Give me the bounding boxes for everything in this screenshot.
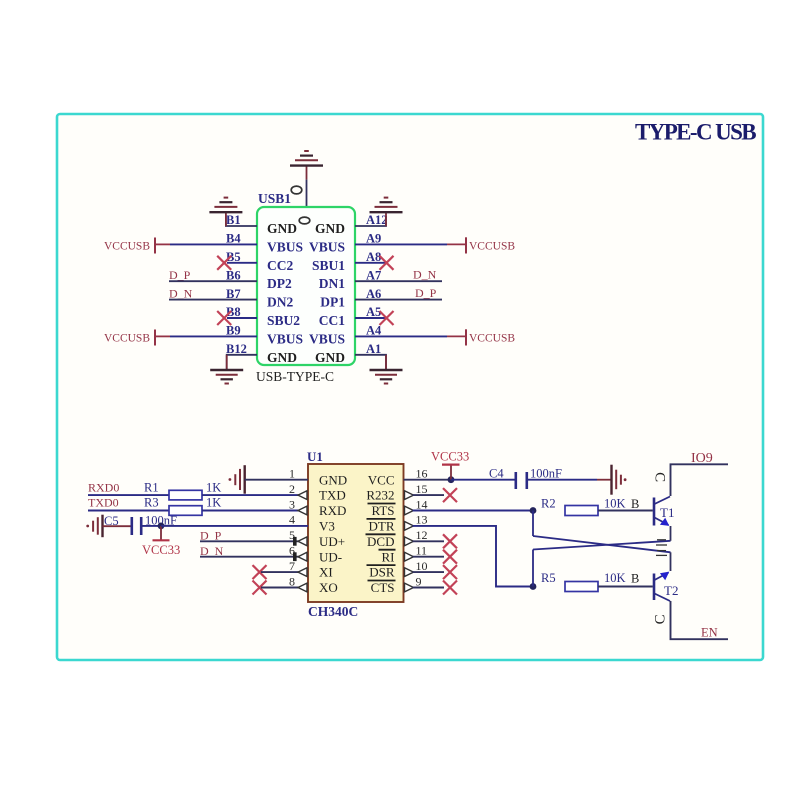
pin 13 arrow	[405, 522, 414, 531]
wire D_N to pin 6 UD-	[200, 556, 299, 558]
ground GND at pin A1	[370, 355, 403, 384]
svg-text:GND: GND	[267, 221, 297, 236]
ground GND at pin B12	[210, 355, 243, 384]
svg-text:10: 10	[416, 559, 428, 573]
svg-text:C4: C4	[489, 467, 504, 481]
svg-text:RTS: RTS	[371, 503, 394, 518]
svg-text:UD-: UD-	[319, 549, 342, 564]
wire TXD0 to R3	[88, 510, 169, 512]
svg-text:DCD: DCD	[367, 534, 394, 549]
svg-text:10K: 10K	[604, 571, 626, 585]
wire pin B12 to ground	[227, 355, 257, 370]
wire pin 15	[413, 494, 445, 496]
ground GND at U1 pin 1	[229, 465, 245, 494]
svg-text:T1: T1	[660, 505, 674, 520]
pin 8 arrow	[298, 583, 307, 592]
svg-text:CC1: CC1	[319, 313, 345, 328]
svg-text:3: 3	[289, 497, 295, 511]
svg-text:R232: R232	[366, 488, 394, 503]
svg-text:VBUS: VBUS	[267, 239, 303, 254]
power port VCC33	[160, 526, 162, 540]
wire pin 13 DTR to R5	[413, 526, 534, 587]
svg-text:12: 12	[416, 528, 428, 542]
svg-text:VCCUSB: VCCUSB	[104, 240, 150, 252]
svg-text:DN2: DN2	[267, 295, 293, 310]
wire T2 emitter vertical	[670, 552, 672, 571]
svg-text:A12: A12	[366, 213, 388, 227]
no-connect X at pin B5	[227, 262, 257, 264]
svg-text:EN: EN	[701, 626, 718, 640]
svg-text:DTR: DTR	[369, 519, 395, 534]
svg-text:D_P: D_P	[415, 286, 437, 300]
pin 0 bubble inside	[299, 217, 310, 224]
svg-text:USB-TYPE-C: USB-TYPE-C	[256, 369, 334, 384]
wire pin A9 to VCCUSB	[355, 243, 447, 245]
wire pin B1 to ground	[226, 216, 257, 226]
svg-text:SBU1: SBU1	[312, 258, 345, 273]
pin 3 arrow	[298, 506, 307, 515]
wire pin 8	[261, 587, 299, 589]
svg-text:GND: GND	[315, 350, 345, 365]
svg-text:B: B	[631, 497, 639, 511]
svg-text:VCC33: VCC33	[431, 449, 469, 463]
svg-text:1: 1	[289, 467, 295, 481]
svg-text:R2: R2	[541, 497, 556, 511]
wire ground to pin 1	[245, 479, 308, 481]
svg-text:13: 13	[416, 513, 428, 527]
ground GND at pin A12	[370, 198, 403, 227]
pin 10 arrow	[405, 568, 414, 577]
wire D_N to pin B7	[169, 299, 257, 301]
wire R5 to T2 base	[598, 586, 653, 588]
ground GND at pin B1	[209, 198, 242, 227]
wire DTR junction up	[532, 550, 534, 587]
wire RXD0 to R1	[88, 494, 169, 496]
svg-text:1K: 1K	[206, 481, 221, 495]
transistor T2	[654, 572, 670, 601]
wire T1 collector to IO9	[671, 464, 729, 496]
ground GND top of USB1 shield	[290, 151, 323, 180]
capacitor C5	[132, 517, 141, 535]
svg-text:VCC33: VCC33	[142, 543, 180, 557]
port VCCUSB left lower	[154, 330, 156, 346]
junction node V3	[158, 523, 165, 530]
transistor T1	[654, 497, 670, 526]
svg-text:9: 9	[416, 574, 422, 588]
svg-text:U1: U1	[307, 449, 323, 464]
wire pin 11	[413, 556, 445, 558]
svg-text:GND: GND	[267, 350, 297, 365]
svg-text:TYPE-C USB: TYPE-C USB	[635, 120, 756, 145]
svg-text:T2: T2	[664, 583, 678, 598]
svg-text:R1: R1	[144, 481, 159, 495]
svg-text:D_P: D_P	[169, 268, 191, 282]
svg-text:R3: R3	[144, 496, 159, 510]
wire pin 9	[413, 587, 445, 589]
svg-text:DN1: DN1	[319, 276, 345, 291]
wire C5 to junction	[143, 525, 162, 527]
wire ground to C5	[103, 525, 131, 527]
svg-text:USB1: USB1	[258, 191, 291, 206]
svg-text:V3: V3	[319, 519, 335, 534]
no-connect X at pin 12	[443, 534, 457, 548]
port VCCUSB right upper	[465, 237, 467, 253]
svg-text:SBU2: SBU2	[267, 313, 300, 328]
svg-text:D_N: D_N	[413, 268, 437, 282]
wire cross RTS to T2 emitter	[533, 536, 671, 552]
svg-text:100nF: 100nF	[530, 467, 562, 481]
svg-text:C: C	[652, 472, 668, 482]
svg-text:15: 15	[416, 482, 428, 496]
wire junction to C4	[451, 479, 515, 481]
svg-text:XO: XO	[319, 580, 338, 595]
svg-text:DSR: DSR	[369, 565, 395, 580]
junction node RTS	[530, 507, 537, 514]
svg-text:D_N: D_N	[169, 287, 193, 301]
svg-text:CH340C: CH340C	[308, 604, 358, 619]
ground GND at C5	[86, 515, 102, 538]
svg-text:CC2: CC2	[267, 258, 293, 273]
port VCCUSB right lower	[465, 329, 467, 345]
emitter mark E1	[656, 540, 667, 545]
wire pin A1 to ground	[355, 355, 386, 370]
resistor R5	[565, 582, 598, 592]
svg-text:XI: XI	[319, 565, 333, 580]
pin 7 arrow	[298, 568, 307, 577]
wire cross DTR to T1 emitter	[533, 541, 671, 550]
no-connect X at pin 8 XO	[253, 581, 267, 595]
svg-text:UD+: UD+	[319, 534, 345, 549]
svg-text:B: B	[631, 572, 639, 586]
capacitor C4	[516, 472, 527, 489]
svg-text:DP1: DP1	[320, 295, 345, 310]
svg-text:RXD0: RXD0	[88, 481, 119, 495]
pin 9 arrow	[405, 583, 414, 592]
no-connect X at pin 7 XI	[253, 565, 267, 579]
svg-text:4: 4	[289, 513, 295, 527]
wire pin 7	[261, 571, 299, 573]
wire T1 emitter vertical	[670, 526, 672, 541]
svg-text:VBUS: VBUS	[309, 331, 345, 346]
wire pin A4 to VCCUSB	[355, 335, 447, 337]
svg-text:11: 11	[416, 544, 428, 558]
wire RTS junction down	[532, 511, 534, 537]
wire T2 collector to EN	[671, 601, 729, 639]
svg-text:1K: 1K	[206, 496, 221, 510]
svg-text:2: 2	[289, 482, 295, 496]
wire R2 to T1 base	[598, 510, 653, 512]
svg-text:16: 16	[416, 467, 428, 481]
port VCCUSB left upper	[154, 238, 156, 254]
no-connect X at pin A5	[355, 317, 385, 319]
wire pin A7 D_N	[355, 280, 442, 282]
emitter mark E2	[656, 551, 667, 556]
svg-text:10K: 10K	[604, 497, 626, 511]
connector USB1 body USB-TYPE-C	[257, 207, 355, 365]
no-connect X at pin 15	[443, 488, 457, 502]
no-connect X at pin 11	[443, 550, 457, 564]
no-connect X at pin A8	[355, 262, 385, 264]
svg-text:RXD: RXD	[319, 503, 346, 518]
wire VCCUSB to pin B9	[155, 335, 170, 337]
IC U1 CH340C body	[308, 464, 404, 602]
svg-text:8: 8	[289, 574, 295, 588]
ground GND right of C4	[612, 465, 627, 495]
wire pin 16 VCC	[404, 479, 452, 481]
svg-text:GND: GND	[315, 221, 345, 236]
svg-text:DP2: DP2	[267, 276, 292, 291]
pin 5 arrow	[293, 537, 297, 546]
svg-text:RI: RI	[382, 549, 395, 564]
wire D_P to pin 5 UD+	[200, 540, 299, 542]
wire R1 to pin 2 TXD	[202, 494, 299, 496]
pin 0 bubble outside	[291, 186, 302, 194]
svg-text:VBUS: VBUS	[309, 239, 345, 254]
svg-text:VCCUSB: VCCUSB	[469, 240, 515, 252]
pin 2 arrow	[298, 491, 307, 500]
svg-text:VCCUSB: VCCUSB	[104, 332, 150, 344]
pin 6 arrow	[293, 552, 297, 561]
svg-text:TXD0: TXD0	[88, 496, 119, 510]
power port VCC33 top	[450, 466, 452, 480]
no-connect X at pin 10	[443, 565, 457, 579]
pin 12 arrow	[405, 537, 414, 546]
wire pin 10	[413, 571, 445, 573]
pin 11 arrow	[405, 552, 414, 561]
resistor R1	[169, 490, 202, 500]
wire pin A6 D_P	[355, 299, 442, 301]
svg-text:IO9: IO9	[691, 451, 713, 466]
svg-text:VCC: VCC	[368, 472, 395, 487]
wire C4 to ground	[528, 479, 597, 481]
pin 15 arrow	[405, 491, 414, 500]
resistor R3	[169, 506, 202, 516]
svg-text:14: 14	[416, 497, 428, 511]
junction node DTR	[530, 583, 537, 590]
junction node VCC33	[448, 476, 455, 483]
wire shield pin 0 to ground	[306, 180, 308, 207]
svg-text:VBUS: VBUS	[267, 331, 303, 346]
svg-text:CTS: CTS	[371, 580, 395, 595]
wire pin 12	[413, 540, 445, 542]
svg-text:R5: R5	[541, 571, 556, 585]
svg-text:VCCUSB: VCCUSB	[469, 332, 515, 344]
wire junction to pin 4 V3	[161, 525, 308, 527]
pin 14 arrow	[405, 506, 414, 515]
wire pin A12 to ground	[355, 216, 386, 226]
svg-text:GND: GND	[319, 472, 347, 487]
no-connect X at pin 9	[443, 581, 457, 595]
wire D_P to pin B6	[169, 280, 257, 282]
resistor R2	[565, 506, 598, 516]
wire R3 to pin 3 RXD	[202, 510, 299, 512]
wire VCCUSB to pin B4	[155, 243, 170, 245]
svg-text:C5: C5	[104, 514, 119, 528]
wire pin 14 RTS to R2	[413, 510, 534, 512]
svg-text:C: C	[653, 614, 669, 624]
no-connect X at pin B8	[227, 317, 257, 319]
svg-text:TXD: TXD	[319, 488, 346, 503]
svg-text:B1: B1	[226, 213, 241, 227]
